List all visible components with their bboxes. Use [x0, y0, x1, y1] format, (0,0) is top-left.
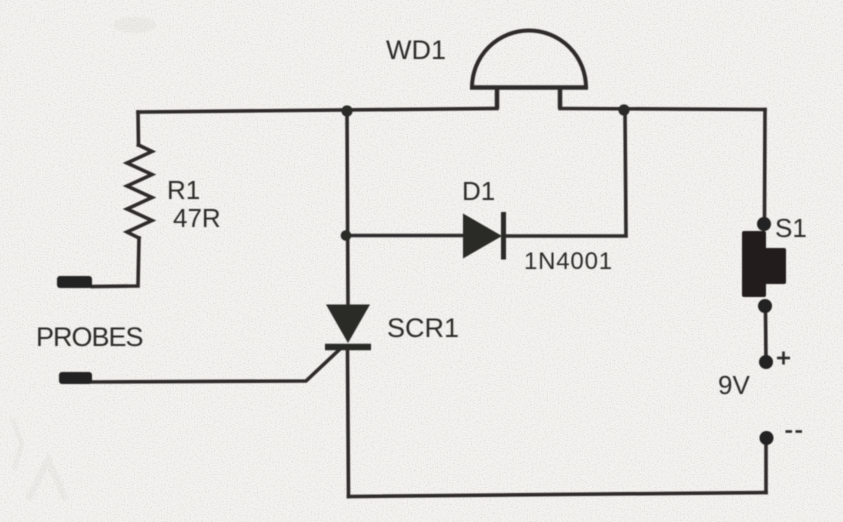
diode D1 — [463, 212, 504, 260]
svg-text:WD1: WD1 — [386, 35, 446, 65]
faint scan smudge bottom-left — [12, 418, 66, 500]
wire SCR anode vertical — [347, 111, 348, 305]
node battery plus terminal — [759, 355, 773, 369]
node S1 bottom terminal — [758, 299, 772, 313]
svg-text:47R: 47R — [173, 203, 221, 233]
wire battery link S1 to plus — [764, 311, 768, 362]
probe terminal 1 — [57, 276, 92, 288]
svg-text:S1: S1 — [775, 213, 807, 243]
thyristor SCR1 — [325, 305, 371, 348]
node S1 top terminal — [757, 217, 771, 231]
switch S1 body — [742, 231, 786, 297]
wire battery minus lead — [764, 444, 768, 493]
wire right vertical to S1 — [763, 110, 767, 220]
resistor R1 zigzag — [127, 145, 152, 238]
svg-text:SCR1: SCR1 — [387, 313, 459, 343]
probe terminal 2 — [59, 372, 92, 384]
svg-text:R1: R1 — [167, 175, 200, 205]
node junction D1 anode — [341, 230, 352, 241]
wire probe2 to gate — [92, 349, 341, 383]
svg-text:PROBES: PROBES — [36, 322, 143, 352]
wire R1 bottom lead — [92, 238, 139, 287]
wire SCR cathode vertical — [348, 351, 349, 497]
svg-text:1N4001: 1N4001 — [524, 248, 613, 275]
wire bottom horizontal — [349, 493, 767, 497]
wire top-right horizontal — [560, 109, 765, 110]
battery plus sign — [777, 352, 790, 365]
battery minus sign — [786, 430, 803, 433]
node junction top (R1/SCR) — [341, 105, 352, 116]
wire top-left horizontal — [138, 109, 497, 113]
svg-text:D1: D1 — [462, 176, 495, 206]
wire D1 right — [506, 110, 626, 236]
buzzer WD1 dome — [470, 31, 588, 109]
node battery minus terminal — [760, 431, 774, 445]
wire R1 top lead — [136, 112, 140, 145]
node junction buzzer right — [618, 104, 629, 115]
faint scan smudge top-left — [113, 17, 157, 33]
wire D1 left — [346, 234, 464, 238]
svg-text:9V: 9V — [718, 370, 750, 400]
